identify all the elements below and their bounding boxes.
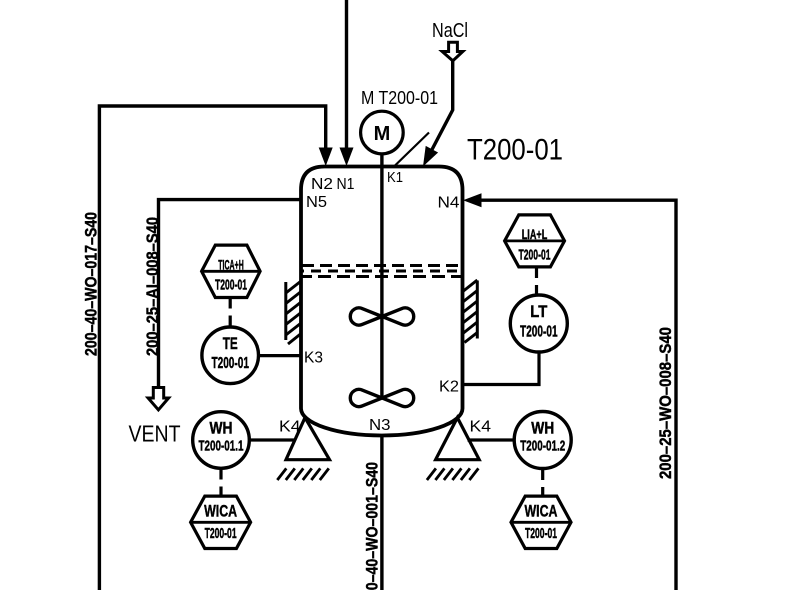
vent hollow arrow bbox=[148, 388, 169, 410]
wire: N1 feed line from top bbox=[345, 0, 348, 149]
svg-text:WH: WH bbox=[210, 420, 233, 438]
jacket hatching left bbox=[284, 282, 287, 340]
svg-text:K2: K2 bbox=[439, 379, 459, 396]
slash nozzle K1 mark bbox=[395, 133, 429, 166]
svg-text:T200-01: T200-01 bbox=[467, 134, 563, 167]
svg-text:N1: N1 bbox=[337, 176, 355, 193]
impeller lower bbox=[350, 389, 382, 406]
svg-text:T200-01.2: T200-01.2 bbox=[520, 438, 565, 455]
wire K3 to TE bbox=[259, 354, 302, 357]
dashed link WH1 to WICA bbox=[219, 469, 222, 497]
support right K4 bbox=[436, 418, 480, 460]
svg-text:LIA+L: LIA+L bbox=[522, 226, 548, 242]
interlock hexagon WICA right bbox=[511, 496, 571, 548]
dashed link LT to LIA bbox=[535, 267, 538, 295]
svg-text:K1: K1 bbox=[387, 169, 403, 186]
svg-text:TE: TE bbox=[223, 335, 238, 353]
node N1 arrow into tank top bbox=[340, 148, 354, 167]
svg-text:T200-01.1: T200-01.1 bbox=[199, 438, 244, 455]
vessel T200-01 shell bbox=[301, 167, 463, 409]
svg-text:200–25–AI–008–S40: 200–25–AI–008–S40 bbox=[144, 217, 162, 356]
wire: N3 bottom outlet line bbox=[380, 436, 383, 590]
svg-text:T200-01: T200-01 bbox=[519, 248, 551, 264]
dashed link TE to TICA bbox=[229, 298, 232, 328]
node N2 arrow into tank top bbox=[319, 148, 333, 167]
svg-text:K3: K3 bbox=[304, 350, 323, 367]
svg-text:LT: LT bbox=[530, 303, 547, 321]
wire: N4 line from right 200-25-WO-008-S40 bbox=[481, 200, 676, 590]
svg-text:VENT: VENT bbox=[129, 421, 181, 447]
wire K4 right to WH bbox=[468, 438, 515, 441]
instrument WH T200-01.1 bbox=[193, 412, 250, 469]
instrument TE T200-01 bbox=[202, 327, 259, 384]
jacket hatching right bbox=[476, 281, 479, 339]
wire K4 left to WH bbox=[249, 438, 295, 441]
vessel dished bottom bbox=[301, 409, 463, 436]
svg-text:N5: N5 bbox=[306, 194, 327, 211]
dashed link WH2 to WICA right bbox=[541, 469, 544, 497]
svg-text:200–40–WO–001–S40: 200–40–WO–001–S40 bbox=[364, 462, 382, 590]
svg-text:K4: K4 bbox=[470, 419, 492, 436]
liquid level dashes bbox=[302, 264, 461, 267]
svg-text:200–25–WO–008–S40: 200–25–WO–008–S40 bbox=[657, 327, 675, 479]
wire: left supply line 200-40-WO-017-S40 bbox=[99, 106, 325, 590]
arrow at K1 bbox=[423, 146, 438, 167]
svg-text:T200-01: T200-01 bbox=[525, 526, 557, 542]
svg-text:WICA: WICA bbox=[204, 503, 237, 521]
interlock hexagon TICA+H bbox=[202, 245, 261, 297]
svg-text:TICA+H: TICA+H bbox=[218, 257, 244, 273]
svg-text:N3: N3 bbox=[369, 417, 391, 434]
motor circle M bbox=[361, 111, 404, 154]
NaCl hollow arrow bbox=[442, 42, 463, 61]
svg-text:N4: N4 bbox=[438, 195, 460, 212]
arrow at N4 bbox=[463, 193, 482, 207]
ground hatch right bbox=[427, 468, 479, 480]
agitator shaft bbox=[380, 154, 383, 399]
svg-text:200–40–WO–017–S40: 200–40–WO–017–S40 bbox=[83, 212, 101, 356]
svg-text:T200-01: T200-01 bbox=[205, 526, 237, 542]
wire: N5 vent line bbox=[159, 200, 302, 387]
interlock hexagon WICA left bbox=[191, 496, 251, 548]
svg-text:NaCl: NaCl bbox=[432, 19, 468, 42]
interlock hexagon LIA+L bbox=[505, 215, 565, 267]
support left K4 bbox=[286, 418, 330, 460]
svg-text:WH: WH bbox=[531, 420, 554, 438]
svg-text:M: M bbox=[374, 123, 391, 145]
svg-text:T200-01: T200-01 bbox=[215, 278, 247, 294]
instrument WH T200-01.2 bbox=[514, 412, 571, 469]
impeller upper bbox=[350, 308, 382, 325]
instrument LT T200-01 bbox=[510, 295, 567, 352]
wire: NaCl dip pipe into K1 bbox=[432, 61, 453, 151]
wire K2 to LT bbox=[463, 353, 540, 385]
svg-text:WICA: WICA bbox=[525, 503, 558, 521]
svg-text:T200-01: T200-01 bbox=[520, 324, 558, 341]
svg-text:M T200-01: M T200-01 bbox=[361, 88, 438, 108]
ground hatch left bbox=[277, 468, 329, 480]
svg-text:T200-01: T200-01 bbox=[211, 355, 249, 372]
svg-text:N2: N2 bbox=[311, 176, 333, 193]
